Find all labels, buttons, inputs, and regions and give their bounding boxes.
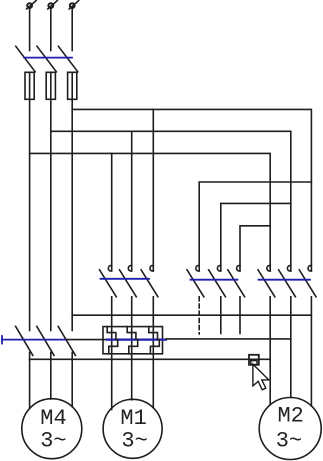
terminal L1 [27, 1, 36, 9]
disconnector Q0 mechanical link [24, 57, 72, 59]
mechanical dashed link KM3 pole1 [198, 297, 200, 334]
wire KM1 pole2 load drop to M1 [131, 297, 133, 400]
lower switch Q1 pole 2 blade [37, 326, 54, 355]
motor M4 circle [22, 399, 82, 459]
svg-text:3~: 3~ [276, 428, 302, 453]
thermal overload relay F4 body [103, 327, 163, 354]
terminal L2 [48, 1, 58, 9]
wire KM1 pole2 drop [131, 131, 133, 271]
wire relay trip line to net E [166, 338, 291, 340]
contactor KM1 pole 1 contact [100, 266, 117, 297]
motor M2 circle [259, 398, 321, 460]
fuse F1 [25, 72, 34, 99]
junction marker box [249, 355, 259, 365]
wire KM1 pole1 drop [111, 153, 113, 271]
wire L2 drop to switch [50, 9, 52, 51]
wire phase2 fuse to lower switch [50, 99, 52, 330]
fuse F2 [46, 72, 55, 99]
wire net E load drop to M2 [290, 297, 292, 398]
lower switch Q1 mechanical link tick [1, 336, 3, 344]
lower switch Q1 mechanical link [2, 339, 67, 341]
mouse cursor arrow [253, 364, 269, 390]
wire phase1 fuse to lower switch [29, 99, 31, 330]
mechanical link to thermal relay [67, 339, 109, 341]
svg-text:M2: M2 [277, 404, 303, 429]
disconnector Q0 pole 2 blade [37, 46, 56, 72]
wire M4 phase2 lower drop [50, 352, 52, 399]
contactor KM2 pole 3 contact [299, 266, 316, 297]
disconnector Q0 pole 1 blade [16, 46, 35, 72]
contactor KM3 mechanical link [191, 279, 238, 281]
wire phase3 fuse to lower switch [71, 99, 73, 330]
contactor KM1 mechanical link [101, 278, 150, 280]
wire L3 drop to switch [71, 9, 73, 51]
wire bus H1 phase3 to contactor KM2 pole3 feed [72, 109, 311, 271]
fuse F3 [68, 72, 77, 99]
contactor KM2 mechanical link [259, 279, 311, 281]
wire bus A phase3 to net D bottom [72, 314, 311, 316]
svg-text:3~: 3~ [40, 428, 66, 453]
contactor KM3 pole 1 contact [187, 266, 204, 297]
contactor KM3 pole 3 contact [228, 266, 245, 297]
thermal relay trip line blue [107, 339, 166, 341]
wire bus H2 phase2 to contactor KM2 pole2 feed [51, 131, 291, 271]
wire KM1 pole1 load drop to M1 [111, 297, 113, 410]
thermal relay element 3 [149, 327, 159, 354]
thermal relay element 2 [127, 327, 138, 354]
contactor KM1 pole 2 contact [120, 266, 137, 297]
wire net F load drop to M2 [269, 297, 271, 405]
wire KM3 pole3 load stub [239, 297, 241, 334]
wire H6 from net E to KM3 pole2 [221, 203, 291, 271]
wire net D load drop to M2 [310, 297, 312, 406]
contactor KM3 pole 2 contact [209, 266, 226, 297]
disconnector Q0 pole 3 blade [58, 46, 77, 72]
wire H7 from net F to KM3 pole3 [240, 226, 270, 271]
wire M4 phase3 lower drop [71, 352, 73, 406]
junction marker inner box [251, 361, 257, 365]
svg-text:3~: 3~ [121, 428, 147, 453]
wire KM1 pole3 load drop to M1 [152, 297, 154, 408]
contactor KM1 pole 3 contact [141, 266, 158, 297]
wire H4 from net D to KM3 pole1 [199, 182, 311, 271]
wire KM1 pole3 drop [152, 109, 154, 271]
thermal relay element 1 [107, 327, 118, 354]
lower switch Q1 pole 1 blade [16, 326, 33, 355]
wire M4 phase1 lower drop [29, 352, 31, 408]
wire KM3 pole2 load stub [220, 297, 222, 334]
wire bus C phase1 to net F bottom [30, 358, 271, 360]
lower switch Q1 pole 3 blade [58, 326, 75, 355]
contactor KM2 pole 2 contact [279, 266, 296, 297]
wire L1 drop to switch [29, 9, 31, 51]
wire bus H3 phase1 to contactor KM2 pole1 feed [30, 153, 271, 271]
motor M1 circle [103, 399, 162, 458]
contactor KM2 pole 1 contact [258, 266, 275, 297]
terminal L3 [69, 1, 79, 9]
